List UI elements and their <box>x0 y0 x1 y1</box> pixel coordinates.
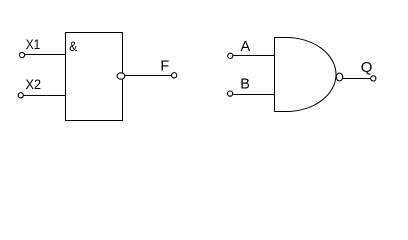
svg-text:X2: X2 <box>26 76 42 92</box>
svg-text:A: A <box>241 39 251 55</box>
svg-text:F: F <box>160 59 169 75</box>
svg-text:B: B <box>240 76 250 92</box>
svg-text:&: & <box>69 38 77 54</box>
svg-text:X1: X1 <box>26 36 41 52</box>
svg-text:Q: Q <box>361 59 373 76</box>
